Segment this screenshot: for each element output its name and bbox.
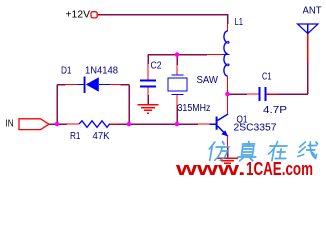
svg-text:ANT: ANT (303, 6, 322, 17)
svg-text:www.: www. (175, 159, 246, 178)
svg-text:R1: R1 (70, 131, 81, 142)
svg-text:IN: IN (6, 119, 14, 130)
svg-text:1N4148: 1N4148 (85, 66, 118, 77)
svg-text:SAW: SAW (197, 75, 219, 86)
svg-text:+12V: +12V (66, 10, 91, 21)
svg-text:1CAE.com: 1CAE.com (246, 159, 313, 178)
svg-text:L1: L1 (235, 17, 244, 28)
svg-text:47K: 47K (93, 131, 110, 142)
svg-text:4.7P: 4.7P (263, 105, 287, 116)
svg-text:C2: C2 (151, 61, 162, 72)
svg-text:315MHz: 315MHz (178, 103, 211, 114)
svg-text:2SC3357: 2SC3357 (234, 123, 277, 134)
svg-text:D1: D1 (61, 66, 72, 77)
svg-text:C1: C1 (262, 72, 272, 83)
